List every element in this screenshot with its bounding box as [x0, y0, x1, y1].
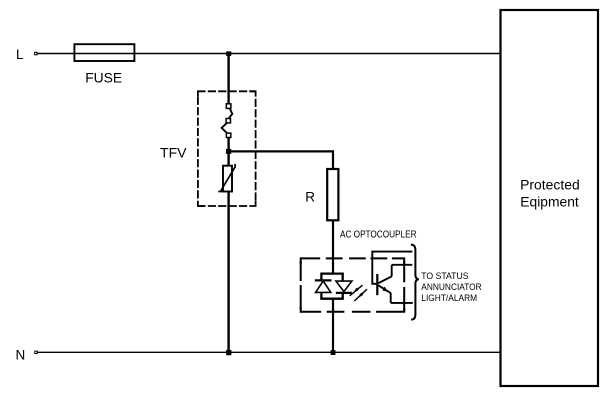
thermal fuse node square 2	[226, 119, 230, 123]
svg-text:TO STATUS: TO STATUS	[421, 271, 468, 281]
wire L rail	[38, 53, 501, 55]
node TFV mid junction	[226, 149, 231, 154]
optocoupler U1 dashed box	[301, 258, 405, 311]
collector vertical	[391, 265, 393, 277]
wire trunk varistor to N rail	[227, 192, 229, 353]
D2 cathode bar	[336, 292, 352, 294]
brace to status annunciator	[411, 245, 419, 320]
thermal fuse node square 3	[226, 133, 230, 137]
fuse F1	[74, 44, 134, 61]
D2 triangle pointing down	[336, 281, 352, 292]
bottom edge dashes	[376, 308, 404, 312]
left stub down from top bar	[320, 274, 322, 281]
wire resistor to optocoupler LED	[332, 220, 334, 273]
light arrow 1	[350, 285, 363, 296]
resistor R	[327, 169, 338, 220]
svg-text:LIGHT/ALARM: LIGHT/ALARM	[421, 293, 477, 303]
left edge dashes	[300, 285, 302, 309]
svg-text:N: N	[16, 348, 26, 363]
terminal L	[34, 52, 38, 56]
emitter arrowhead	[382, 287, 388, 292]
svg-text:Protected: Protected	[520, 178, 580, 193]
collector lead to brace	[392, 264, 413, 266]
svg-text:FUSE: FUSE	[85, 69, 122, 85]
phototransistor Q1	[372, 252, 413, 303]
node junction top rail	[226, 51, 231, 56]
node N rail trunk junction	[226, 350, 231, 355]
base bar	[376, 274, 378, 295]
emitter vertical	[390, 293, 392, 303]
wire mid junction to varistor	[227, 151, 229, 165]
top bus bar	[320, 272, 344, 274]
svg-text:Eqipment: Eqipment	[520, 194, 579, 209]
bottom bus bar	[320, 298, 344, 300]
svg-text:L: L	[16, 47, 24, 62]
wire N rail	[38, 351, 501, 353]
thermal fuse TF1 zigzag	[222, 108, 233, 133]
node N rail opto junction	[331, 350, 336, 355]
light arrow 2	[354, 289, 367, 301]
D1 cathode bar	[315, 279, 332, 281]
svg-text:R: R	[305, 190, 315, 205]
D1 stub to bottom bar	[320, 292, 322, 298]
right edge dashes	[403, 261, 405, 282]
varistor RV1	[218, 164, 235, 192]
protected equipment box	[501, 10, 599, 386]
emitter diagonal	[378, 285, 390, 293]
wire thermal fuse to mid junction	[227, 138, 229, 152]
svg-text:TFV: TFV	[160, 144, 187, 160]
top edge dashes	[301, 258, 321, 264]
D1 triangle pointing up	[316, 281, 331, 293]
collector diagonal	[378, 276, 391, 283]
terminal N	[34, 351, 38, 355]
TFV dashed box	[198, 91, 256, 206]
svg-text:ANNUNCIATOR: ANNUNCIATOR	[421, 282, 482, 292]
wire trunk from top rail into TFV	[227, 54, 229, 105]
right stub down from top bar	[342, 274, 344, 282]
D2 stub to bottom bar	[342, 293, 344, 299]
base lead left + up + top rail to brace	[372, 252, 412, 284]
wire mid junction to resistor R (horizontal + corner down)	[229, 151, 333, 169]
wire optocoupler LED to N rail	[332, 299, 334, 353]
svg-text:AC OPTOCOUPLER: AC OPTOCOUPLER	[340, 229, 417, 240]
LED pair D1 D2 (anti-parallel)	[315, 274, 352, 299]
thermal fuse node square 1	[226, 104, 231, 109]
emitter lead to brace	[391, 302, 413, 304]
